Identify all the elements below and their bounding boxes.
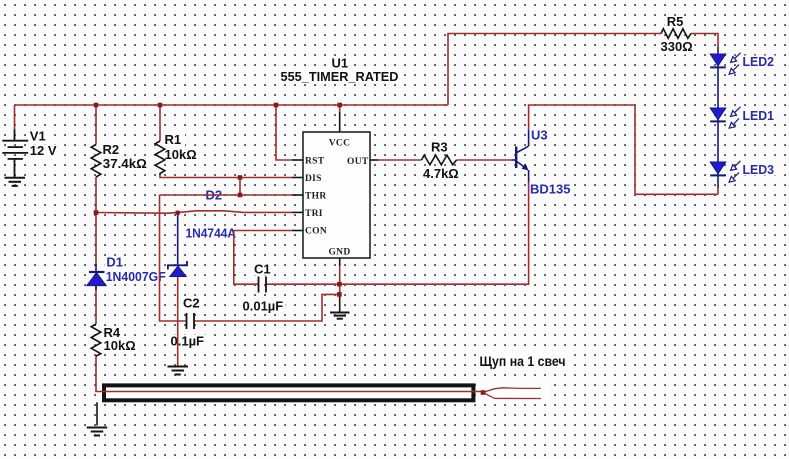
svg-text:R2: R2 [103, 142, 120, 157]
wire: bar bottom to ground [96, 402, 98, 425]
wire: R3 to transistor base [457, 159, 512, 161]
transistor U3 BD135 [512, 130, 529, 182]
svg-text:1N4744A: 1N4744A [186, 226, 237, 241]
svg-text:R3: R3 [431, 140, 448, 155]
ground under battery [5, 178, 26, 186]
label BD135 [528, 182, 571, 197]
wire: THR down to C2 left lead [160, 195, 186, 321]
LED3 [710, 161, 740, 182]
svg-text:OUT: OUT [347, 157, 369, 167]
label C2 [181, 296, 203, 311]
label R4 [102, 325, 124, 340]
label C1 [252, 262, 274, 277]
svg-text:R1: R1 [165, 132, 182, 147]
svg-text:CON: CON [305, 227, 327, 237]
node rail-RST [274, 103, 279, 108]
svg-text:TRI: TRI [305, 209, 323, 219]
resistor R4 [91, 324, 101, 356]
svg-text:GND: GND [328, 248, 350, 258]
label probe text [477, 353, 571, 369]
wire: D2 anode to ground [177, 276, 179, 366]
node probe tip [481, 390, 486, 395]
svg-text:R5: R5 [667, 14, 684, 29]
wire: battery top stub [14, 105, 16, 130]
capacitor C2 [187, 313, 195, 329]
wire: R2 bottom to D1 [95, 177, 97, 266]
svg-text:VCC: VCC [329, 139, 350, 149]
wire: R1 top [159, 105, 161, 141]
node DIS jog top [238, 175, 243, 180]
probe clip [483, 388, 541, 399]
svg-text:C2: C2 [183, 296, 200, 311]
wire: R4 to probe line [95, 356, 97, 392]
resistor R5 [661, 29, 691, 39]
svg-text:THR: THR [305, 192, 327, 202]
node C1-GND [337, 282, 342, 287]
svg-text:RST: RST [305, 157, 325, 167]
wire: DIS-THR jog [239, 178, 241, 196]
capacitor C1 [259, 277, 267, 293]
diode D1 1N4007 [87, 264, 106, 290]
svg-text:1N4007GF: 1N4007GF [106, 269, 166, 284]
svg-text:LED1: LED1 [743, 108, 775, 123]
battery V1 [2, 130, 28, 178]
svg-text:555_TIMER_RATED: 555_TIMER_RATED [281, 69, 399, 84]
label V1 [28, 129, 49, 144]
label 37.4kOhm [101, 156, 147, 171]
wire: OUT to R3 [378, 159, 422, 161]
wire: RST from rail [276, 105, 292, 160]
label U1 [329, 56, 348, 71]
probe bar [95, 385, 481, 400]
label R1 [163, 132, 185, 147]
wire: C2 right lead to GND junction [195, 294, 340, 321]
LED1 [710, 107, 740, 128]
wire: collector up and over to LED loop [529, 105, 718, 194]
svg-text:DIS: DIS [305, 174, 322, 184]
label LED3 [741, 162, 777, 177]
chip pin stubs [292, 112, 378, 312]
wire: LED chain bottom red part [717, 188, 719, 194]
svg-text:10kΩ: 10kΩ [104, 338, 136, 353]
chip U1 555 timer body [303, 132, 370, 258]
label LED1 [741, 108, 777, 123]
wire: TRI line wavy [96, 211, 292, 213]
node rail-R1 [158, 103, 163, 108]
label 1N4744A [184, 226, 241, 241]
label 4.7kOhm [421, 166, 462, 181]
label 10kOhm R1 [163, 147, 198, 162]
svg-text:4.7kΩ: 4.7kΩ [423, 166, 459, 181]
wire: probe center line [95, 391, 481, 393]
node TRI-R2 column [94, 210, 99, 215]
svg-text:10kΩ: 10kΩ [165, 147, 197, 162]
label 330Ohm [658, 39, 695, 55]
label 0.1uF [169, 334, 207, 349]
label R5 [665, 14, 687, 29]
wire: top power rail [15, 104, 449, 106]
svg-text:D1: D1 [106, 255, 123, 270]
wire: THR line [160, 194, 293, 196]
node rail-R2 [94, 103, 99, 108]
svg-text:0.1µF: 0.1µF [171, 334, 205, 349]
ground under probe bar [87, 428, 108, 436]
resistor R2 [91, 145, 101, 178]
svg-text:Щуп на 1 свеч: Щуп на 1 свеч [480, 354, 566, 369]
wire: D1 to R4 [95, 286, 97, 324]
label R2 [101, 142, 123, 157]
svg-text:LED3: LED3 [743, 162, 775, 177]
label 555_TIMER_RATED [279, 69, 402, 84]
zener D2 1N4744A [168, 213, 187, 277]
node C2-GND [337, 292, 342, 297]
wire: R2 top [95, 105, 97, 145]
ground under chip [330, 313, 350, 319]
svg-text:U3: U3 [531, 128, 548, 143]
LED2 [710, 53, 740, 74]
wire: CON line to C1 left [234, 231, 292, 285]
label 0.01uF [241, 299, 286, 314]
wire: emitter down and left to ground node [339, 182, 528, 284]
wire: rail corner up to R5 row [448, 34, 661, 106]
svg-text:LED2: LED2 [743, 54, 775, 69]
svg-text:0.01µF: 0.01µF [243, 299, 284, 314]
wire: R5 to LED column [691, 34, 718, 48]
svg-text:37.4kΩ: 37.4kΩ [103, 156, 147, 171]
node THR jog bottom [238, 193, 243, 198]
label 1N4007GF [104, 269, 171, 284]
wire: R1 bottom and DIS line [160, 175, 292, 178]
label U3 [529, 128, 550, 143]
svg-text:BD135: BD135 [530, 182, 570, 197]
LED chain vertical wire [717, 47, 719, 188]
wire: GND column red part [339, 266, 341, 296]
resistor R1 [155, 141, 165, 175]
label D2 [206, 188, 223, 203]
label D1 [105, 255, 125, 270]
svg-text:V1: V1 [30, 129, 46, 144]
node rail-VCC [337, 103, 342, 108]
label 10kOhm R4 [102, 338, 137, 354]
label LED2 [741, 54, 777, 69]
svg-text:12 V: 12 V [30, 143, 57, 158]
svg-text:330Ω: 330Ω [661, 39, 693, 54]
node TRI-D2 [176, 211, 180, 215]
svg-text:C1: C1 [254, 262, 271, 277]
label R3 [429, 140, 451, 155]
wire: VCC stub red tip [339, 105, 341, 112]
ground under D2 [168, 367, 189, 375]
label 12 V [28, 143, 58, 158]
resistor R3 [422, 155, 457, 165]
wire: C1 right to GND column [267, 283, 340, 285]
white pad under probe clip [477, 381, 549, 404]
